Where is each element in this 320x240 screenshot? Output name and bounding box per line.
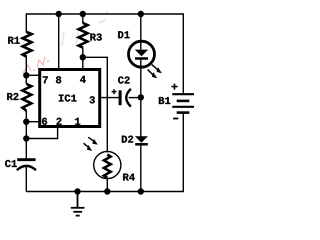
watermark [23,12,108,73]
battery B1 polarity + [172,84,178,90]
wire: rail down through LED D1 [140,14,142,50]
label C2 [118,76,130,83]
ground [71,192,85,216]
node: rail junction at D2 branch [138,188,144,194]
op-amp/timer IC1 box [40,70,100,127]
node: rail junction D1 [138,11,144,17]
wire: top supply rail [26,13,183,15]
node: junction C2 / LED branch [138,94,144,100]
capacitor C2 [120,89,131,107]
wire: battery - down to ground rail [182,114,184,192]
photoresistor R4 [94,151,121,178]
wire: bottom ground rail [26,191,183,193]
wire: pin 4 junction across to R4 branch [83,57,108,152]
node: junction pin 7 [23,72,29,78]
battery B1 polarity - [173,118,178,120]
node: junction pin 6 [23,119,29,125]
label R2 [7,93,18,100]
resistor R2 [22,84,31,111]
node: rail junction at R4 branch [104,188,110,194]
pin 7 [43,76,48,83]
label C1 [5,160,17,167]
wire: R1 bottom to R2 top [25,57,27,85]
wire: pin 3 output to C2 [100,97,119,99]
capacitor C2 polarity + [112,89,117,94]
node: junction pin 4 / reset [80,54,86,60]
wire: R3 bottom to pin 4 [82,48,84,71]
pin 6 [42,118,47,125]
R4 light arrows [84,137,98,151]
wire: left branch top (rail to R1) [25,13,27,32]
wire: D2 cathode to ground rail [140,144,142,191]
pin 2 [56,118,61,125]
wire: C2 to D1/D2 branch [129,97,141,99]
wire: pin 2 connection [26,127,57,139]
node: junction pin 2 [23,135,29,141]
capacitor C1 [17,160,36,171]
label B1 [159,97,170,104]
pin 4 [80,76,86,83]
wire: pin 6 connection [26,121,39,123]
label D1 [118,31,129,38]
pin 1 [75,118,80,125]
wire: rail down to battery + [182,13,184,93]
battery B1 [172,94,194,112]
pin 8 [56,76,61,83]
node: rail junction at pin 1 [74,188,80,194]
node: rail junction R3 [80,11,86,17]
pin 3 [90,96,95,103]
label D2 [122,136,133,143]
wire: pin 7 connection [26,74,39,76]
label R4 [123,174,135,181]
LED D1 light arrows [148,65,162,79]
wire: pin 8 to rail [58,14,60,70]
diode D2 [135,136,148,144]
label R1 [8,37,19,44]
node: rail junction pin 8 [56,11,62,17]
wire: D1 cathode down to D2 [140,59,142,137]
label IC1 [59,94,77,101]
resistor R3 [79,23,88,48]
wire: R2 bottom down to C1 [25,111,27,159]
label R3 [90,33,101,40]
wire: R4 bottom to ground rail [106,178,108,192]
LED D1 [129,41,155,67]
resistor R1 [23,32,32,57]
wire: rail to R3 top [82,14,84,24]
wire: C1 bottom to ground rail corner [25,167,27,192]
